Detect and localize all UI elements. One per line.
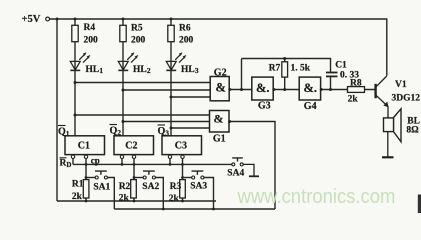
svg-text:SA2: SA2 [142, 182, 159, 192]
svg-text:1. 5k: 1. 5k [291, 64, 311, 74]
svg-text:&: & [216, 81, 226, 95]
ground [382, 156, 394, 158]
resistor R6 [168, 25, 174, 41]
pin cp C3 [181, 155, 184, 158]
svg-text:SA4: SA4 [227, 169, 244, 179]
svg-text:R8: R8 [350, 79, 362, 89]
svg-text:RD: RD [60, 159, 72, 170]
wire cp1 column [85, 155, 87, 201]
svg-text:&.: &. [256, 81, 270, 95]
LED HL1 [70, 54, 89, 70]
wire bottom rail B [114, 208, 275, 210]
svg-text:R4: R4 [84, 23, 96, 33]
svg-text:V1: V1 [395, 80, 407, 90]
pin RD C3 [168, 155, 171, 158]
gate G3 box [252, 77, 273, 100]
wire G1 output to rail B [229, 122, 275, 210]
wire SA2 to rail B [155, 178, 163, 210]
wire cp2 column [133, 155, 135, 201]
gate G4 box [299, 77, 320, 100]
resistor R5 [120, 25, 126, 41]
svg-text:www.cntronics.com: www.cntronics.com [237, 187, 396, 209]
svg-text:&: & [214, 112, 224, 126]
wire bottom rail A [57, 200, 216, 202]
svg-text:SA1: SA1 [93, 183, 110, 193]
svg-text:R2: R2 [119, 182, 131, 192]
node Q2 column wire [122, 19, 124, 136]
wire Q2 to G1 input 2 [123, 121, 210, 123]
wire Q3 to G2 input 3 [171, 96, 210, 98]
svg-text:C1: C1 [335, 61, 347, 71]
resistor R3 [180, 180, 186, 198]
svg-text:G2: G2 [214, 68, 227, 79]
svg-text:C3: C3 [175, 141, 187, 152]
speaker BL [384, 118, 394, 132]
svg-text:SA3: SA3 [190, 182, 207, 192]
svg-text:200: 200 [179, 36, 194, 46]
wire RD pin C2 [121, 155, 123, 165]
wire Q2 to G2 input 2 [123, 89, 210, 91]
wire SA1 to rail B [107, 178, 114, 210]
wire Q3 to G1 input 3 [171, 127, 210, 129]
svg-text:R1: R1 [72, 180, 84, 190]
svg-text:R7: R7 [269, 64, 281, 74]
wire C1 lower lead [330, 76, 332, 89]
flip-flop C2 box [114, 136, 154, 155]
wire RD pin C1 [72, 155, 74, 165]
switch SA4 [232, 158, 259, 176]
LED HL2 [118, 54, 137, 70]
svg-text:R3: R3 [170, 182, 182, 192]
wire SA3 branch [183, 177, 192, 179]
wire G3 output to G4 input [273, 89, 299, 91]
LED HL3 [166, 54, 185, 70]
svg-text:3DG12: 3DG12 [392, 94, 421, 104]
wire SA1 branch [86, 177, 95, 179]
wire SA3 to rail B [204, 178, 214, 210]
switch SA1 [95, 171, 107, 179]
svg-text:2k: 2k [169, 194, 180, 204]
wire RD pin C3 [169, 155, 171, 165]
resistor R1 [83, 180, 89, 198]
pin RD C2 [120, 155, 123, 158]
resistor R7 [282, 62, 288, 77]
svg-text:2k: 2k [119, 194, 130, 204]
wire G2 output to G3 input [229, 89, 252, 91]
wire cp3 column [182, 155, 184, 201]
svg-text:R6: R6 [179, 24, 191, 34]
svg-text:200: 200 [131, 36, 146, 46]
wire SA2 branch [134, 177, 143, 179]
svg-text:2k: 2k [72, 192, 83, 202]
svg-text:HL1: HL1 [86, 65, 104, 75]
svg-text:R5: R5 [131, 24, 143, 34]
pin cp C2 [132, 155, 135, 158]
svg-text:G4: G4 [304, 101, 317, 112]
svg-text:Q1: Q1 [58, 127, 70, 139]
wire Q1 to G1 input 1 [75, 114, 210, 116]
svg-text:200: 200 [84, 36, 99, 46]
svg-text:2k: 2k [348, 95, 359, 105]
wire feedback vertical [241, 59, 243, 90]
svg-text:C1: C1 [78, 141, 90, 152]
svg-text:G1: G1 [213, 134, 226, 145]
terminal +5V [46, 17, 50, 21]
resistor R4 [72, 25, 78, 41]
svg-text:Q2: Q2 [110, 126, 122, 138]
wire G4 output to transistor base [321, 89, 375, 91]
switch SA2 [143, 171, 155, 179]
svg-text:C2: C2 [125, 141, 137, 152]
wire Q1 to G2 input 1 [75, 82, 210, 84]
op-amp gate G2 box [210, 77, 229, 101]
pin cp C1 [84, 155, 87, 158]
node Q3 column wire [170, 19, 172, 136]
wire speaker to ground [387, 132, 389, 157]
gate G1 box [210, 111, 230, 133]
switch SA3 [192, 171, 204, 179]
flip-flop C1 box [65, 136, 105, 155]
scan artifact bar bottom right [418, 195, 421, 214]
resistor R2 [131, 180, 137, 198]
wire top +5V rail [50, 19, 387, 76]
capacitor C1 [326, 73, 338, 77]
svg-text:Q3: Q3 [158, 126, 170, 138]
transistor V1 [376, 76, 388, 118]
svg-text:G3: G3 [258, 101, 271, 112]
svg-text:&.: &. [304, 81, 318, 95]
svg-text:HL2: HL2 [133, 65, 151, 75]
svg-text:HL3: HL3 [181, 65, 199, 75]
svg-text:+5V: +5V [22, 14, 41, 25]
wire feedback top to C1 [242, 59, 331, 73]
flip-flop C3 box [162, 136, 202, 155]
node Q1 column wire [74, 19, 76, 136]
wire RD line [73, 163, 232, 165]
pin RD C1 [71, 155, 74, 158]
resistor R8 [348, 87, 365, 93]
wire left rail [56, 19, 58, 201]
svg-text:cp: cp [91, 156, 100, 166]
wire R7 leads [284, 59, 286, 90]
svg-text:8Ω: 8Ω [406, 126, 419, 136]
